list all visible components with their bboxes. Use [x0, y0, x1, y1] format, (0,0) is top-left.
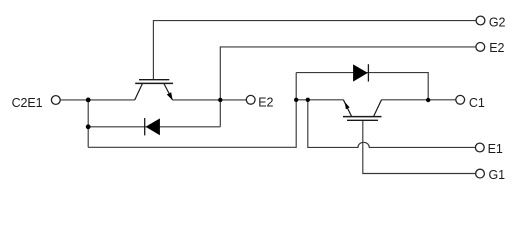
svg-text:C2E1: C2E1 — [12, 96, 43, 110]
svg-text:G1: G1 — [489, 168, 506, 182]
svg-text:E2: E2 — [489, 41, 504, 55]
svg-text:E2: E2 — [258, 96, 273, 110]
svg-text:C1: C1 — [469, 96, 485, 110]
svg-text:G2: G2 — [489, 15, 506, 29]
svg-text:E1: E1 — [488, 142, 503, 156]
